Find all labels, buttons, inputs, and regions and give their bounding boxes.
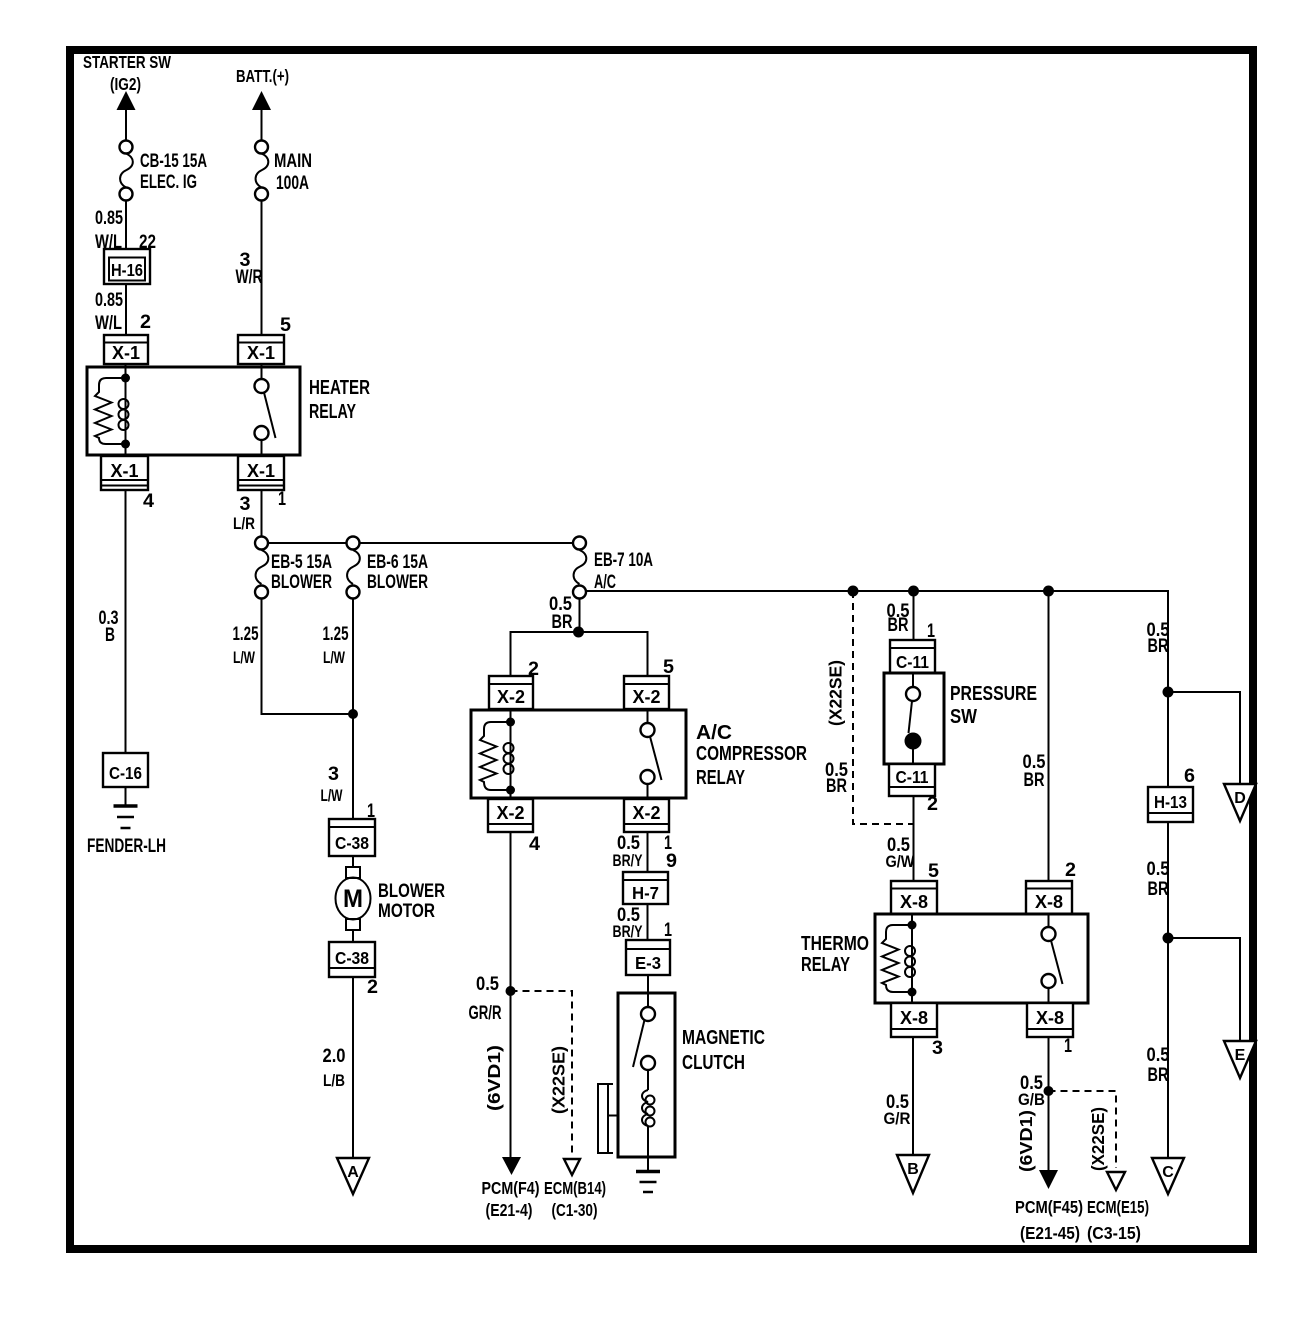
magnetic clutch rotor plate [597,1084,618,1153]
value label 0.5 G/W [886,835,916,871]
value label 2.0 L/B [323,1046,346,1090]
svg-text:BR: BR [1024,770,1045,791]
svg-text:EB-5 15A: EB-5 15A [271,552,332,573]
svg-text:COMPRESSOR: COMPRESSOR [696,743,807,765]
svg-text:X-1: X-1 [247,343,275,363]
svg-text:FENDER-LH: FENDER-LH [87,836,166,857]
svg-text:0.5: 0.5 [1147,1045,1170,1066]
wire [352,930,354,942]
label CB-15 15A ELEC. IG [140,151,207,193]
svg-text:0.85: 0.85 [95,290,123,311]
value label 0.5 BR [887,601,910,636]
svg-text:PRESSURE: PRESSURE [950,683,1037,705]
pressure switch contacts [905,673,922,764]
value label 0.5 G/B [1018,1073,1045,1109]
svg-text:H-16: H-16 [111,260,143,280]
connector C-38 pin 1 [329,819,375,856]
connector X-2 pin 5 [624,676,669,709]
svg-text:BR: BR [888,615,909,636]
magnetic clutch box [618,993,675,1157]
junction dot node D branch [1163,687,1174,698]
svg-text:0.5: 0.5 [1147,859,1170,880]
heater relay coil node dot top [121,374,130,383]
value label 0.5 BR [1147,1045,1170,1086]
svg-text:9: 9 [666,851,677,872]
svg-text:BR/Y: BR/Y [613,922,643,941]
wire EB-6 down to blower [352,599,354,820]
a/c relay resistor [480,722,511,790]
svg-text:L/B: L/B [323,1071,345,1090]
wire fuse bus horizontal [262,542,580,544]
label EB-6 15A BLOWER [367,552,428,593]
node D arrow [1224,784,1256,821]
svg-text:2: 2 [140,312,151,333]
heater relay resistor [95,378,126,444]
a/c relay coil node dot top [506,718,515,727]
svg-text:RELAY: RELAY [309,401,356,423]
svg-text:BLOWER: BLOWER [367,572,428,593]
wire coil to pin 5 [911,914,913,925]
wire X-2 pin 4 down to PCM [510,832,512,1159]
svg-text:1: 1 [664,920,672,941]
svg-text:X-8: X-8 [900,1008,928,1028]
svg-text:E: E [1235,1047,1246,1064]
junction dot [1044,1086,1054,1096]
svg-text:A: A [347,1164,359,1181]
svg-text:C: C [1162,1164,1174,1181]
value label 3 W/R [236,250,263,288]
thermo relay coil [905,925,915,992]
svg-text:E-3: E-3 [635,953,661,973]
svg-text:3: 3 [240,494,251,515]
wire clutch to ground [647,1157,649,1171]
svg-text:D: D [1234,790,1246,807]
wire to C-11 pin 1 [913,591,915,640]
svg-text:ELEC. IG: ELEC. IG [140,172,197,193]
node STARTER SW (IG2) label [83,52,171,94]
value label 0.5 BR/Y [613,833,643,870]
dashed wire to ECM(E15) [1049,1091,1117,1168]
value label 0.5 G/R [884,1092,911,1128]
node E arrow [1224,1041,1256,1078]
wire A/C bus to right [586,591,1168,787]
wire coil to pin 4 [510,790,512,799]
svg-text:(6VD1): (6VD1) [484,1045,504,1111]
junction dot [348,709,358,719]
fuse EB-7 10A A/C [573,537,586,599]
svg-text:G/W: G/W [886,852,916,871]
label EB-5 15A BLOWER [271,552,332,593]
label ECM(B14) (C1-30) [544,1178,606,1220]
svg-text:BR: BR [826,776,847,797]
svg-text:1: 1 [1064,1036,1072,1057]
value label 3 L/W [321,764,344,805]
wire [125,787,127,806]
a/c relay coil [504,722,514,790]
svg-text:C-38: C-38 [335,833,369,853]
svg-text:HEATER: HEATER [309,377,370,399]
label PCM(F45) (E21-45) [1015,1197,1083,1243]
svg-text:L/W: L/W [321,786,344,805]
svg-text:H-13: H-13 [1154,792,1187,812]
svg-text:X-2: X-2 [497,687,525,707]
svg-text:A/C: A/C [594,572,616,593]
node A arrow [337,1158,369,1194]
junction dot node E branch [1163,933,1174,944]
magnetic clutch coil [642,1070,655,1157]
connector C-11 pin 1 [890,640,935,673]
svg-text:(X22SE): (X22SE) [549,1046,569,1114]
label BLOWER MOTOR [378,881,445,922]
connector X-8 pin 3 [891,1003,937,1037]
open arrowhead to ECM(B14) [564,1159,580,1175]
value label 0.85 W/L [95,208,123,253]
ground magnetic clutch [636,1172,660,1193]
svg-text:X-2: X-2 [633,687,661,707]
motor BLOWER MOTOR [336,867,371,930]
svg-text:X-1: X-1 [112,343,140,363]
wire C-11 pin 2 down to X-8 pin 5 [913,796,915,881]
svg-text:X-1: X-1 [111,461,139,481]
svg-text:EB-6 15A: EB-6 15A [367,552,428,573]
svg-text:PCM(F4): PCM(F4) [482,1178,540,1198]
wire EB-7 down to BR junction [579,599,581,633]
relay HEATER RELAY box [87,367,300,455]
thermo relay coil node dot top [908,921,917,930]
svg-text:BR/Y: BR/Y [613,851,643,870]
connector C-16 [103,753,148,787]
svg-text:2: 2 [1065,860,1076,881]
svg-text:(6VD1): (6VD1) [1016,1110,1036,1172]
svg-text:(E21-4): (E21-4) [486,1200,533,1220]
value label 0.5 BR [549,594,573,633]
value label 0.5 BR [1023,752,1046,791]
relay A/C COMPRESSOR RELAY box [471,710,686,798]
wire [125,201,127,250]
svg-text:2: 2 [367,977,378,998]
connector X-2 pin 2 [489,676,533,709]
svg-text:1.25: 1.25 [233,624,259,645]
svg-text:SW: SW [950,706,977,728]
svg-text:BR: BR [1148,879,1169,900]
svg-text:C-11: C-11 [896,652,929,672]
svg-text:G/R: G/R [884,1109,911,1128]
value label 0.5 BR [825,760,848,797]
svg-text:0.85: 0.85 [95,208,123,229]
svg-text:X-2: X-2 [633,803,661,823]
svg-text:A/C: A/C [696,722,732,744]
wire coil to pin 2 [510,709,512,722]
svg-text:THERMO: THERMO [801,933,869,955]
wire E-3 to magnetic clutch [647,975,649,1007]
svg-text:B: B [105,625,115,646]
wire coil to pin 2 [125,364,127,378]
svg-text:PCM(F45): PCM(F45) [1015,1197,1083,1217]
svg-text:C-16: C-16 [109,763,142,783]
svg-text:(C3-15): (C3-15) [1087,1223,1141,1243]
arrowhead to PCM(F45) [1039,1170,1058,1189]
relay THERMO RELAY box [875,914,1088,1003]
connector X-1 pin 2 [104,335,148,364]
ground FENDER-LH [114,806,138,828]
svg-text:BR: BR [552,612,573,633]
svg-text:W/L: W/L [95,313,122,334]
svg-text:ECM(B14): ECM(B14) [544,1178,606,1198]
fuse CB-15 15A ELEC. IG [120,141,133,201]
wire [261,107,263,141]
heater relay switch [255,364,276,457]
connector X-2 pin 1 [624,799,669,832]
svg-text:BATT.(+): BATT.(+) [236,66,289,86]
svg-text:(E21-45): (E21-45) [1020,1223,1080,1243]
label PRESSURE SW [950,683,1037,728]
wire X-1 pin 1 down to fuse bus [261,490,263,543]
svg-text:BR: BR [1148,1065,1169,1086]
svg-text:X-8: X-8 [1035,892,1063,912]
svg-text:4: 4 [143,491,154,512]
value label 0.5 BR/Y [613,905,643,941]
svg-text:G/B: G/B [1018,1090,1045,1109]
svg-text:W/R: W/R [236,267,263,288]
svg-text:EB-7 10A: EB-7 10A [594,550,653,571]
wire [125,107,127,141]
label EB-7 10A A/C [594,550,653,593]
label ECM(E15) (C3-15) [1087,1197,1149,1243]
svg-text:C-11: C-11 [896,767,929,787]
svg-text:L/R: L/R [233,514,255,533]
junction dot thermo column [1043,586,1054,597]
connector X-8 pin 5 [891,881,937,914]
svg-text:ECM(E15): ECM(E15) [1087,1197,1149,1217]
svg-text:GR/R: GR/R [469,1003,502,1024]
connector H-16 [104,249,150,284]
connector X-1 pin 5 [238,335,284,364]
svg-text:M: M [343,885,363,913]
svg-text:MAIN: MAIN [274,151,312,172]
node C arrow [1152,1158,1184,1194]
svg-text:BLOWER: BLOWER [271,572,332,593]
a/c relay switch [641,709,662,799]
wire coil to pin 4 [125,444,127,457]
connector X-1 pin 1 [238,456,284,490]
svg-text:BLOWER: BLOWER [378,881,445,902]
svg-text:X-1: X-1 [247,461,275,481]
wire to node D [1168,692,1240,784]
value label 1.25 L/W [233,624,259,667]
wire X-2 pin 1 to H-7 [647,832,649,872]
svg-text:0.5: 0.5 [476,974,499,995]
connector X-1 pin 4 [101,456,148,490]
svg-text:STARTER SW: STARTER SW [83,52,171,72]
svg-text:(IG2): (IG2) [110,74,141,94]
label HEATER RELAY [309,377,370,423]
value label 3 L/R [233,494,255,533]
svg-text:X-8: X-8 [900,892,928,912]
svg-text:L/W: L/W [323,648,346,667]
svg-text:4: 4 [529,834,540,855]
dashed wire to ECM [511,991,573,1157]
wire thermo right column from bus [1048,591,1050,881]
wire EB-5 down and right to junction [262,599,354,715]
wire split to relay pins 2 and 5 [511,632,648,676]
label MAIN 100A [274,151,312,194]
svg-text:3: 3 [328,764,339,785]
svg-text:L/W: L/W [233,648,256,667]
dashed wire X22SE branch [853,591,914,824]
svg-text:2: 2 [927,794,938,815]
junction dot [573,627,584,638]
wire X-1 pin 4 down to C-16 [125,490,127,753]
wire X-8 pin 1 down to PCM(F45) [1048,1037,1050,1171]
svg-text:C-38: C-38 [335,948,369,968]
wire to node E [1168,938,1240,1041]
wire H-13 down to node C [1167,822,1169,1158]
value label 0.5 BR right column [1147,620,1170,657]
junction dot X22SE branch [848,586,859,597]
heater relay coil node dot bottom [121,440,130,449]
junction dot [506,986,516,996]
wire X-8 pin 3 to node B [912,1037,914,1155]
thermo relay coil node dot bottom [908,988,917,997]
connector X-8 pin 2 [1026,881,1072,914]
svg-text:5: 5 [928,861,939,882]
svg-text:CB-15 15A: CB-15 15A [140,151,207,172]
value label 0.3 B [99,608,119,646]
thermo relay switch [1042,914,1063,1003]
svg-text:(X22SE): (X22SE) [826,660,846,726]
arrowhead to PCM(F4) [502,1157,521,1175]
fuse MAIN 100A [255,141,268,201]
open arrowhead to ECM(E15) [1107,1172,1125,1190]
svg-text:H-7: H-7 [632,883,659,903]
switch PRESSURE SW box [884,673,944,764]
wire [261,201,263,336]
value label 1.25 L/W [323,624,349,667]
connector X-2 pin 4 [488,799,533,832]
value label 0.5 GR/R [469,974,502,1024]
fuse EB-6 15A BLOWER [347,537,360,599]
svg-text:5: 5 [280,315,291,336]
svg-text:RELAY: RELAY [801,954,850,976]
svg-text:1.25: 1.25 [323,624,349,645]
wire H-7 to E-3 [647,904,649,940]
svg-text:(C1-30): (C1-30) [552,1200,598,1220]
svg-text:2.0: 2.0 [323,1046,346,1067]
arrowhead to BATT [252,91,271,110]
arrowhead to STARTER SW [117,91,136,110]
svg-text:3: 3 [932,1038,943,1059]
svg-text:X-8: X-8 [1036,1008,1064,1028]
svg-text:BR: BR [1148,636,1169,657]
label MAGNETIC CLUTCH [682,1027,765,1074]
svg-text:100A: 100A [276,173,309,194]
svg-text:1: 1 [278,489,286,510]
value label 0.85 W/L [95,290,123,334]
wire coil to pin 3 [911,992,913,1003]
connector C-38 pin 2 [329,942,375,977]
svg-text:MAGNETIC: MAGNETIC [682,1027,765,1049]
label PCM(F4) (E21-4) [482,1178,540,1220]
label A/C COMPRESSOR RELAY [696,722,807,789]
svg-text:MOTOR: MOTOR [378,901,435,922]
node B arrow [897,1155,929,1193]
a/c relay coil node dot bottom [506,786,515,795]
svg-text:B: B [907,1161,919,1178]
fuse EB-5 15A BLOWER [255,537,268,599]
value label 0.5 BR [1147,859,1170,900]
svg-text:RELAY: RELAY [696,767,745,789]
connector C-11 pin 2 [889,764,935,796]
svg-text:(X22SE): (X22SE) [1088,1107,1108,1171]
connector H-7 pin 9 [623,872,668,904]
label THERMO RELAY [801,933,869,976]
svg-text:X-2: X-2 [497,803,525,823]
connector E-3 pin 1 [626,940,670,975]
svg-text:6: 6 [1184,766,1195,787]
junction dot pressure sw column [908,586,919,597]
connector H-13 pin 6 [1148,787,1193,822]
connector X-8 pin 1 [1027,1003,1073,1037]
wire [352,856,354,868]
svg-text:CLUTCH: CLUTCH [682,1052,745,1074]
wire [125,284,127,335]
thermo relay resistor [882,925,912,992]
wire to connector A [352,977,354,1158]
heater relay coil [119,378,129,444]
magnetic clutch switch [633,1007,655,1070]
